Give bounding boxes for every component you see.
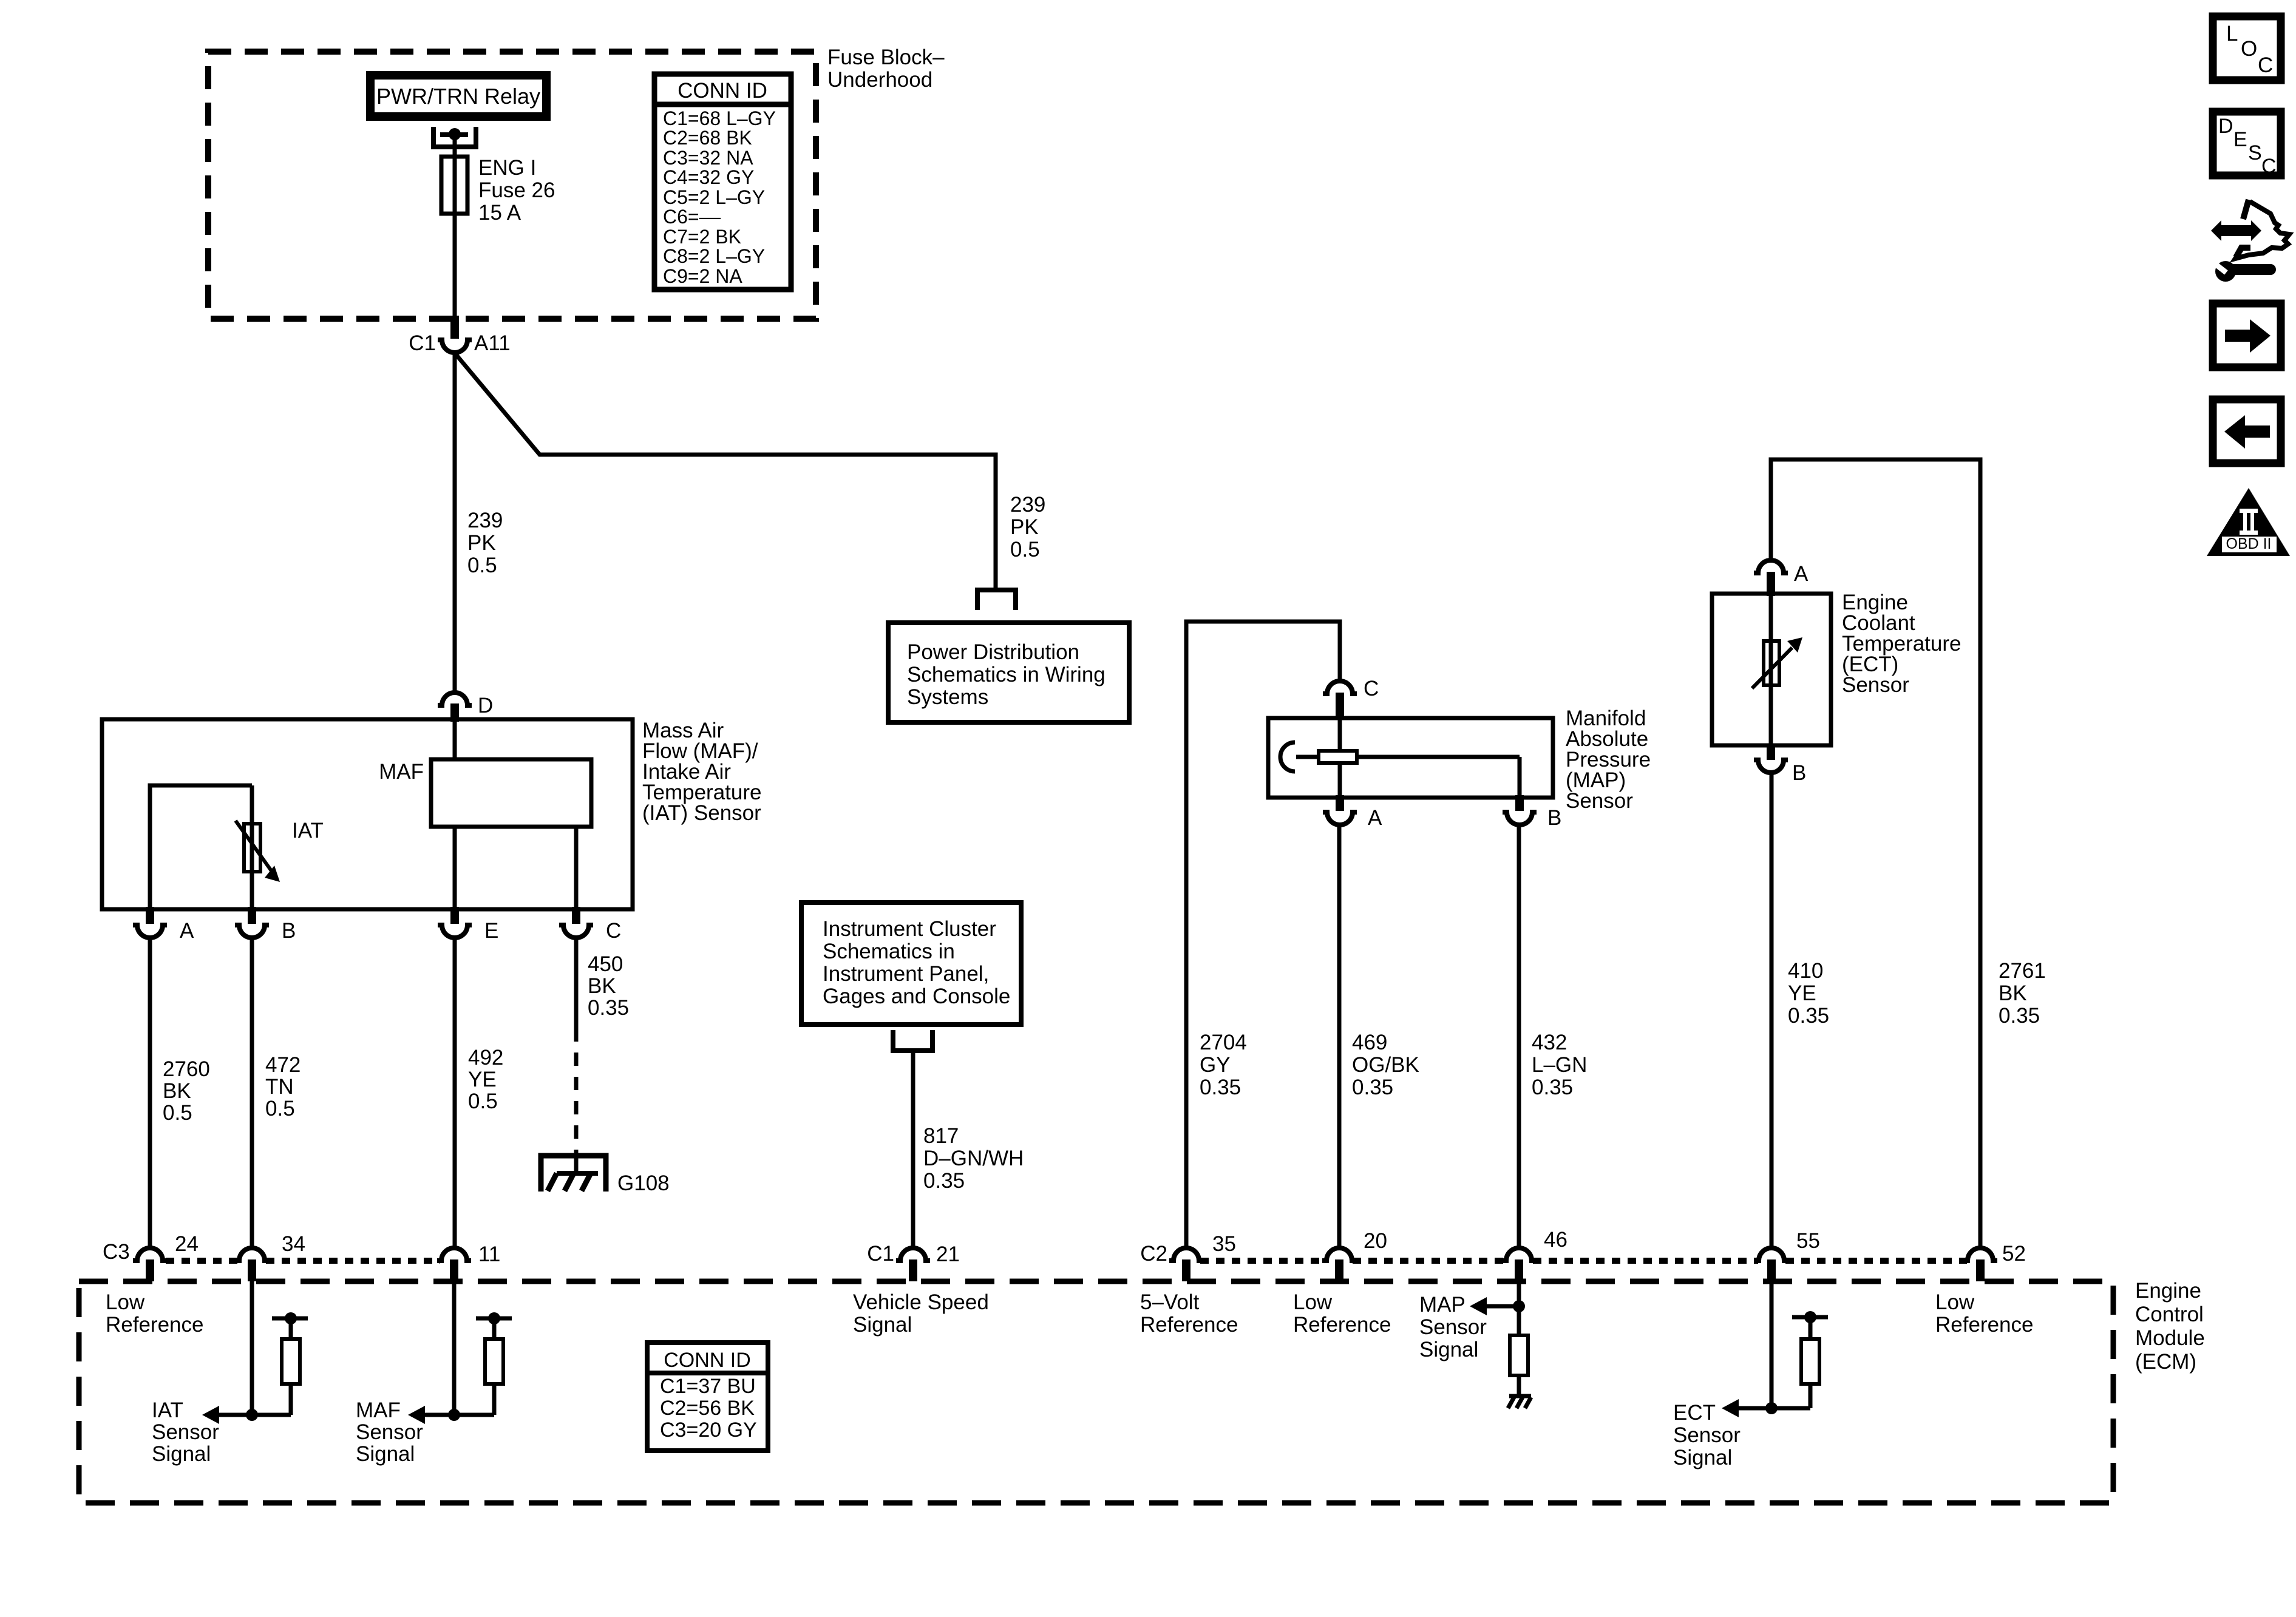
CONN ID table (fuse block) — [652, 74, 793, 290]
svg-text:Low: Low — [1293, 1290, 1333, 1314]
ECM internal MAP signal arrow — [1470, 1297, 1525, 1315]
ECM pin 35 (connector C2) — [1140, 1232, 1236, 1281]
connector pin C of MAP sensor — [1323, 677, 1379, 719]
svg-text:O: O — [2241, 37, 2257, 61]
svg-text:PWR/TRN Relay: PWR/TRN Relay — [376, 84, 540, 109]
svg-text:PK: PK — [1010, 515, 1039, 539]
connector pin E of MAF sensor — [438, 907, 498, 943]
label: 5-Volt Reference — [1140, 1290, 1238, 1337]
svg-text:Sensor: Sensor — [1419, 1315, 1487, 1339]
svg-text:Vehicle Speed: Vehicle Speed — [853, 1290, 989, 1314]
connector pin D of MAF sensor — [438, 693, 493, 722]
svg-text:L: L — [2226, 22, 2238, 46]
svg-text:BK: BK — [588, 974, 616, 998]
svg-text:2761: 2761 — [1999, 959, 2046, 983]
label: IAT Sensor Signal — [152, 1398, 219, 1466]
ECM internal MAF signal arrow — [408, 1406, 494, 1424]
ECM internal ECT pull-up rail — [1792, 1311, 1828, 1339]
svg-text:ECT: ECT — [1673, 1401, 1716, 1425]
ECM connector dotted bus line — [166, 1258, 1967, 1264]
relay: PWR/TRN Relay box — [370, 75, 546, 117]
svg-text:Fuse Block–: Fuse Block– — [827, 46, 945, 69]
svg-text:OBD II: OBD II — [2226, 535, 2271, 552]
svg-text:GY: GY — [1200, 1053, 1231, 1077]
svg-text:Power Distribution: Power Distribution — [907, 640, 1079, 664]
svg-text:C6=––: C6=–– — [663, 206, 721, 228]
svg-text:Sensor: Sensor — [1842, 673, 1909, 697]
svg-text:A: A — [1794, 562, 1809, 586]
label: ECT Sensor Signal — [1673, 1401, 1741, 1470]
svg-text:Reference: Reference — [1293, 1313, 1391, 1337]
label: 450 BK 0.35 — [588, 952, 629, 1020]
svg-text:C5=2 L–GY: C5=2 L–GY — [663, 186, 765, 208]
label: 2761 BK 0.35 — [1999, 959, 2046, 1028]
wire: 492 YE pin E to ECM pin 11 — [453, 938, 457, 1247]
svg-text:MAP: MAP — [1419, 1293, 1466, 1317]
label: MAP Sensor Signal — [1419, 1293, 1487, 1361]
svg-text:MAF: MAF — [379, 760, 424, 784]
MAF element box — [379, 759, 591, 827]
ECM internal ECT resistor — [1771, 1339, 1819, 1408]
svg-text:11: 11 — [478, 1242, 500, 1266]
svg-text:432: 432 — [1532, 1031, 1567, 1054]
svg-text:410: 410 — [1788, 959, 1823, 983]
icon: back arrow box — [2213, 399, 2281, 463]
svg-text:C3=32 NA: C3=32 NA — [663, 147, 753, 169]
svg-text:B: B — [1792, 761, 1806, 785]
label: Low Reference (pin 52) — [1935, 1290, 2033, 1337]
wire: 410 YE ECT pin B to ECM pin 55 — [1770, 773, 1774, 1247]
svg-text:A: A — [1368, 806, 1382, 830]
svg-text:469: 469 — [1352, 1031, 1387, 1054]
svg-text:Module: Module — [2135, 1326, 2205, 1350]
ECM internal IAT circuit: wire from pin 34 — [250, 1281, 254, 1415]
icon: DESC box — [2213, 112, 2281, 178]
MAP sensor internal element — [1280, 719, 1520, 798]
label: 239 PK 0.5 (right) — [1010, 493, 1045, 561]
svg-text:46: 46 — [1544, 1228, 1567, 1252]
box: MAF / IAT sensor — [102, 719, 633, 909]
svg-text:Sensor: Sensor — [356, 1420, 423, 1444]
wire: 2704 GY loop from MAP pin C to ECM pin 35 — [1186, 622, 1340, 1247]
svg-text:PK: PK — [467, 531, 496, 555]
svg-text:15 A: 15 A — [478, 201, 521, 225]
svg-text:492: 492 — [468, 1046, 503, 1070]
svg-text:Reference: Reference — [106, 1313, 203, 1337]
label: 239 PK 0.5 (left) — [467, 509, 503, 577]
icon: harness connector with double arrow and wrench — [2211, 200, 2289, 282]
svg-text:Sensor: Sensor — [1566, 789, 1633, 813]
svg-text:55: 55 — [1796, 1229, 1820, 1253]
svg-text:S: S — [2248, 141, 2262, 164]
svg-text:0.5: 0.5 — [163, 1101, 192, 1125]
box: Instrument Cluster Schematics — [801, 903, 1021, 1025]
svg-text:CONN ID: CONN ID — [664, 1349, 751, 1372]
svg-text:450: 450 — [588, 952, 623, 976]
wire: 472 TN pin B to ECM pin 34 — [250, 938, 254, 1247]
ECM internal ECT signal arrow — [1722, 1399, 1778, 1417]
svg-text:(ECM): (ECM) — [2135, 1350, 2196, 1374]
connector pin B of ECT sensor — [1754, 745, 1806, 785]
svg-text:Signal: Signal — [853, 1313, 912, 1337]
label: MAF Sensor Signal — [356, 1398, 423, 1466]
svg-text:CONN ID: CONN ID — [678, 79, 767, 103]
label: Engine Control Module (ECM) — [2135, 1279, 2205, 1374]
svg-text:D: D — [2218, 115, 2233, 138]
svg-text:Underhood: Underhood — [827, 68, 932, 92]
ECT thermistor — [1752, 596, 1802, 745]
label: Engine Coolant Temperature (ECT) Sensor — [1842, 591, 1961, 697]
wire: MAF element to pin C — [574, 827, 579, 909]
svg-text:IAT: IAT — [152, 1398, 183, 1422]
svg-text:Systems: Systems — [907, 685, 988, 709]
svg-text:20: 20 — [1364, 1229, 1387, 1253]
ECM pin 52 — [1963, 1242, 2026, 1281]
label: 472 TN 0.5 — [265, 1053, 301, 1120]
svg-text:817: 817 — [923, 1124, 959, 1148]
ECM internal MAP circuit: wire from pin 46 — [1517, 1281, 1521, 1335]
svg-text:Engine: Engine — [2135, 1279, 2201, 1303]
svg-text:L–GN: L–GN — [1532, 1053, 1587, 1077]
wire: 469 OG/BK MAP pin A to ECM pin 20 — [1337, 825, 1342, 1247]
svg-text:YE: YE — [468, 1068, 497, 1091]
connector pin A of MAF sensor — [133, 907, 194, 943]
svg-text:ENG I: ENG I — [478, 156, 536, 180]
svg-text:YE: YE — [1788, 981, 1816, 1005]
svg-text:239: 239 — [467, 509, 503, 532]
svg-text:A: A — [180, 919, 194, 943]
svg-text:0.5: 0.5 — [467, 554, 497, 577]
label: Manifold Absolute Pressure (MAP) Sensor — [1566, 707, 1651, 813]
label: Mass Air Flow (MAF)/ Intake Air Temperature (IAT) Sensor — [642, 719, 761, 825]
svg-text:C1=37 BU: C1=37 BU — [660, 1375, 756, 1398]
svg-text:C: C — [1364, 677, 1379, 700]
label: Fuse Block-Underhood — [827, 46, 945, 92]
connector bracket below Instrument Cluster box — [893, 1030, 932, 1051]
label: Low Reference (pin 24) — [106, 1290, 203, 1337]
connector bracket at Power Distribution box — [977, 590, 1016, 610]
label: 469 OG/BK 0.35 — [1352, 1031, 1419, 1099]
svg-text:Sensor: Sensor — [152, 1420, 219, 1444]
ECM internal MAF resistor — [485, 1339, 503, 1415]
ECM pin 34 — [235, 1232, 305, 1281]
svg-text:0.5: 0.5 — [265, 1097, 295, 1120]
wire: 2761 BK loop from ECT pin A to ECM pin 52 — [1771, 459, 1980, 1247]
svg-text:Sensor: Sensor — [1673, 1423, 1741, 1447]
svg-text:TN: TN — [265, 1075, 294, 1099]
svg-text:C8=2 L–GY: C8=2 L–GY — [663, 245, 765, 267]
svg-text:Low: Low — [1935, 1290, 1975, 1314]
svg-text:239: 239 — [1010, 493, 1045, 517]
svg-text:Schematics in: Schematics in — [823, 940, 955, 963]
svg-text:Fuse 26: Fuse 26 — [478, 178, 555, 202]
icon: OBD II triangle — [2207, 488, 2290, 556]
ECM pin 24 (connector C3) — [103, 1232, 199, 1281]
fuse: ENG I Fuse 26 15 A — [441, 156, 555, 225]
svg-text:Instrument Panel,: Instrument Panel, — [823, 962, 989, 986]
svg-text:5–Volt: 5–Volt — [1140, 1290, 1200, 1314]
svg-text:0.5: 0.5 — [1010, 538, 1040, 561]
ground G108 — [541, 1156, 670, 1195]
svg-text:C3=20 GY: C3=20 GY — [660, 1419, 757, 1442]
wire: 450 BK pin C to ground G108 (part solid, part dashed) — [574, 938, 579, 1173]
wire: relay to fuse to connector A11 — [453, 138, 457, 318]
box: ECT sensor — [1712, 594, 1831, 745]
svg-text:0.35: 0.35 — [1532, 1076, 1573, 1099]
svg-text:A11: A11 — [474, 331, 511, 355]
label: 492 YE 0.5 — [468, 1046, 503, 1113]
svg-text:MAF: MAF — [356, 1398, 401, 1422]
ECM pin 46 — [1502, 1228, 1567, 1281]
svg-text:E: E — [484, 919, 498, 943]
svg-text:Low: Low — [106, 1290, 145, 1314]
connector pin A of MAP sensor — [1323, 795, 1382, 830]
connector pin A of ECT sensor — [1754, 560, 1809, 596]
svg-text:Signal: Signal — [1673, 1446, 1732, 1470]
svg-text:C9=2 NA: C9=2 NA — [663, 265, 742, 287]
ECM pin 55 — [1754, 1229, 1820, 1281]
svg-text:BK: BK — [163, 1079, 191, 1103]
wire: 239 PK from A11 to MAF pin D — [453, 353, 457, 691]
box: Power Distribution Schematics in Wiring Systems — [888, 623, 1129, 722]
svg-text:D–GN/WH: D–GN/WH — [923, 1147, 1024, 1170]
svg-text:C: C — [2261, 155, 2277, 178]
label: 432 L-GN 0.35 — [1532, 1031, 1587, 1099]
ECM internal ground for MAP — [1508, 1396, 1531, 1408]
connector pin B of MAP sensor — [1503, 795, 1561, 830]
svg-text:Instrument Cluster: Instrument Cluster — [823, 917, 996, 941]
svg-text:IAT: IAT — [292, 819, 324, 842]
svg-text:(IAT) Sensor: (IAT) Sensor — [642, 801, 761, 825]
svg-text:C1: C1 — [409, 331, 436, 355]
svg-text:Signal: Signal — [1419, 1338, 1478, 1361]
svg-text:C4=32 GY: C4=32 GY — [663, 166, 754, 188]
svg-text:Schematics in Wiring: Schematics in Wiring — [907, 663, 1106, 686]
svg-text:G108: G108 — [617, 1171, 670, 1195]
relay contact symbol — [433, 127, 476, 147]
svg-text:C: C — [606, 919, 621, 943]
wire: 432 L-GN MAP pin B to ECM pin 46 — [1517, 825, 1521, 1247]
svg-text:0.35: 0.35 — [1352, 1076, 1393, 1099]
svg-text:Signal: Signal — [152, 1442, 211, 1466]
box: MAP sensor — [1268, 718, 1553, 798]
ECM pin 20 — [1322, 1229, 1387, 1281]
label: Vehicle Speed Signal — [853, 1290, 989, 1337]
ECM internal MAF pull-up rail — [476, 1312, 512, 1339]
svg-text:C2: C2 — [1140, 1242, 1167, 1266]
svg-text:472: 472 — [265, 1053, 301, 1077]
svg-text:34: 34 — [282, 1232, 305, 1256]
svg-text:BK: BK — [1999, 981, 2027, 1005]
svg-text:Control: Control — [2135, 1303, 2204, 1326]
IAT thermistor — [150, 785, 324, 909]
wire: MAF element to pin E — [453, 827, 457, 909]
svg-text:C: C — [2258, 53, 2273, 77]
label: 2760 BK 0.5 — [163, 1057, 210, 1125]
label: 2704 GY 0.35 — [1200, 1031, 1247, 1099]
ECM: Engine Control Module dashed outline — [79, 1281, 2113, 1503]
connector C1 / A11 — [409, 316, 510, 355]
svg-text:Gages and Console: Gages and Console — [823, 985, 1010, 1008]
svg-text:B: B — [1547, 806, 1561, 830]
fuse block: Fuse Block-Underhood dashed outline — [208, 52, 816, 319]
icon: forward arrow box — [2213, 303, 2281, 367]
ECM internal ECT circuit: wire from pin 55 — [1770, 1281, 1774, 1408]
svg-text:35: 35 — [1212, 1232, 1236, 1256]
svg-text:21: 21 — [936, 1242, 960, 1266]
svg-text:B: B — [282, 919, 296, 943]
label: 817 D-GN/WH 0.35 — [923, 1124, 1024, 1193]
label: 410 YE 0.35 — [1788, 959, 1829, 1028]
svg-text:24: 24 — [175, 1232, 199, 1256]
svg-text:D: D — [478, 694, 493, 717]
CONN ID table (ECM) — [647, 1343, 768, 1451]
svg-text:2704: 2704 — [1200, 1031, 1247, 1054]
ECM internal MAF circuit: wire from pin 11 — [452, 1281, 457, 1415]
connector pin C of MAF sensor — [559, 907, 621, 943]
svg-text:Reference: Reference — [1935, 1313, 2033, 1337]
svg-text:C1=68 L–GY: C1=68 L–GY — [663, 107, 776, 129]
ECM internal MAP resistor — [1510, 1335, 1528, 1396]
svg-text:52: 52 — [2002, 1242, 2026, 1266]
wire: 239 PK branch to Power Distribution — [456, 354, 996, 589]
svg-text:Signal: Signal — [356, 1442, 415, 1466]
svg-text:C3: C3 — [103, 1240, 130, 1264]
ECM pin 21 (connector C1) — [867, 1242, 960, 1281]
svg-text:0.35: 0.35 — [1788, 1004, 1829, 1028]
svg-text:0.35: 0.35 — [923, 1169, 965, 1193]
svg-text:2760: 2760 — [163, 1057, 210, 1081]
wire: pin D into MAF element — [453, 722, 457, 759]
svg-text:C1: C1 — [867, 1242, 894, 1266]
svg-text:C2=56 BK: C2=56 BK — [660, 1397, 755, 1420]
svg-text:0.35: 0.35 — [1200, 1076, 1241, 1099]
svg-text:0.35: 0.35 — [588, 996, 629, 1020]
wire: 817 D-GN/WH to ECM pin 21 — [911, 1051, 915, 1247]
label: Low Reference (pin 20) — [1293, 1290, 1391, 1337]
connector pin B of MAF sensor — [235, 907, 296, 943]
ECM internal IAT pull-up rail — [272, 1312, 308, 1339]
ECM internal IAT resistor — [282, 1339, 300, 1415]
svg-text:C2=68 BK: C2=68 BK — [663, 127, 752, 149]
svg-text:Reference: Reference — [1140, 1313, 1238, 1337]
svg-text:OG/BK: OG/BK — [1352, 1053, 1419, 1077]
icon: LOC box — [2213, 16, 2281, 80]
ECM pin 11 — [437, 1242, 500, 1281]
svg-text:C7=2 BK: C7=2 BK — [663, 226, 741, 248]
wire: 2760 BK pin A to ECM pin 24 — [148, 938, 152, 1247]
ECM internal IAT signal arrow — [202, 1406, 291, 1424]
svg-text:E: E — [2233, 128, 2247, 151]
svg-text:0.5: 0.5 — [468, 1090, 498, 1113]
svg-text:0.35: 0.35 — [1999, 1004, 2040, 1028]
